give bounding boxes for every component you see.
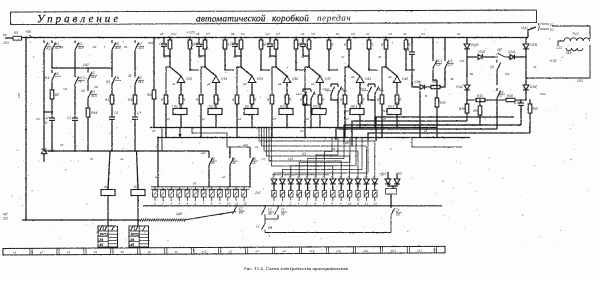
svg-text:V342: V342 — [530, 85, 538, 89]
relay coil К4.1 — [350, 104, 364, 114]
contact X8.5/78 — [75, 74, 79, 87]
svg-text:а9: а9 — [345, 141, 349, 145]
junction — [368, 37, 370, 39]
junction — [208, 186, 210, 188]
junction — [165, 137, 167, 139]
wire routing 3 — [336, 129, 497, 140]
fuse box FU — [386, 189, 397, 195]
contact K9/45 — [250, 155, 254, 168]
junction — [295, 37, 297, 39]
junction — [215, 127, 217, 129]
svg-text:48: 48 — [81, 89, 85, 93]
svg-text:45: 45 — [130, 243, 134, 247]
wire bundle 14b — [140, 219, 186, 222]
wire — [440, 71, 445, 87]
wire — [359, 115, 361, 128]
junction — [251, 127, 253, 129]
wire — [134, 122, 136, 151]
wire — [514, 56, 526, 58]
wire — [331, 97, 338, 100]
capacitor C12 — [49, 115, 55, 123]
junction — [295, 69, 297, 71]
wire — [111, 122, 113, 151]
wire — [251, 83, 253, 96]
wire rail y137 — [157, 137, 470, 139]
junction — [308, 37, 310, 39]
svg-text:42: 42 — [341, 55, 345, 59]
svg-text:R3: R3 — [14, 31, 18, 35]
svg-text:К7: К7 — [134, 185, 138, 189]
transistor V35 base diagonal — [241, 67, 252, 76]
junction — [169, 66, 171, 68]
resistor R38 — [431, 85, 440, 88]
svg-text:V35: V35 — [257, 77, 263, 81]
svg-text:45: 45 — [252, 161, 256, 165]
svg-text:ФУ5: ФУ5 — [396, 172, 402, 176]
wire — [323, 184, 325, 191]
svg-text:а10: а10 — [243, 143, 248, 147]
resistor stage V48 bias — [380, 95, 384, 104]
svg-text:Управление: Управление — [37, 13, 121, 25]
wire — [189, 38, 191, 41]
junction — [385, 66, 387, 68]
wire top supply bus — [44, 37, 528, 39]
diode V29 — [41, 149, 46, 154]
junction — [436, 136, 438, 138]
svg-text:К4.4: К4.4 — [382, 109, 388, 113]
junction — [224, 37, 226, 39]
contact G4/45 — [230, 155, 234, 168]
title text — [37, 12, 351, 25]
junction — [51, 111, 52, 112]
wire transformer left — [558, 41, 564, 46]
contact K7/314 — [135, 40, 139, 53]
wire — [412, 60, 419, 87]
junction — [51, 150, 53, 152]
wire bias branch — [305, 67, 309, 95]
diode VD33 — [372, 179, 378, 184]
junction — [157, 186, 159, 188]
svg-text:к9: к9 — [121, 250, 124, 254]
svg-text:4Б: 4Б — [377, 87, 381, 91]
wire — [357, 184, 359, 191]
relay coil К2.0 — [279, 104, 293, 114]
junction — [224, 69, 226, 71]
wire — [520, 108, 522, 125]
junction — [302, 37, 304, 39]
junction — [87, 150, 89, 152]
svg-text:64: 64 — [470, 72, 474, 76]
junction — [368, 69, 370, 71]
wire bias branch — [272, 67, 276, 95]
resistor stage V34 bias — [199, 95, 203, 104]
svg-text:11: 11 — [235, 202, 238, 206]
diode junction V33 — [177, 76, 185, 83]
svg-text:ЕВ: ЕВ — [268, 226, 272, 230]
svg-text:к1: к1 — [13, 251, 16, 255]
resistor R2 — [50, 90, 54, 99]
contact K1.5/17 — [497, 88, 501, 101]
junction — [419, 136, 421, 138]
svg-text:413: 413 — [91, 94, 97, 98]
junction — [310, 127, 312, 129]
diode VD28 — [330, 179, 336, 184]
junction — [520, 99, 521, 100]
resistor stage V48 right — [404, 40, 408, 49]
title box — [10, 10, 536, 25]
junction — [111, 67, 113, 69]
resistor R17 — [110, 95, 114, 104]
junction — [405, 37, 407, 39]
wire — [411, 57, 413, 60]
resistor R59 — [478, 106, 482, 115]
junction — [277, 205, 278, 206]
wire — [87, 117, 89, 151]
wire — [396, 174, 398, 179]
wire — [393, 184, 397, 186]
wire — [368, 49, 370, 70]
svg-text:V48: V48 — [402, 77, 408, 81]
wire — [290, 184, 292, 191]
contact K6/414 — [52, 70, 56, 83]
contact K3/413c — [88, 88, 92, 101]
wire — [466, 90, 468, 104]
wire — [485, 99, 497, 101]
wire — [349, 184, 351, 191]
svg-text:R15: R15 — [477, 94, 483, 98]
svg-text:2/1: 2/1 — [335, 249, 341, 253]
capacitor C V37 — [300, 41, 306, 49]
junction — [134, 150, 136, 152]
junction — [381, 137, 383, 139]
junction — [163, 37, 165, 39]
svg-text:24: 24 — [98, 238, 103, 242]
contact K1.1 — [433, 58, 437, 71]
transistor V33 base diagonal — [170, 67, 181, 76]
contact D3/416 — [135, 74, 139, 87]
wire — [163, 38, 165, 43]
diode array terminal boxes — [272, 191, 377, 206]
svg-text:С2: С2 — [36, 117, 40, 121]
junction — [328, 69, 330, 71]
wire — [260, 38, 262, 41]
svg-text:12: 12 — [365, 202, 369, 206]
wire collector link — [190, 69, 199, 71]
diode FU5 — [394, 179, 400, 184]
wire — [180, 83, 182, 96]
svg-text:111: 111 — [3, 217, 8, 221]
svg-text:д7: д7 — [90, 157, 94, 161]
wire — [515, 99, 526, 101]
wire — [381, 104, 383, 138]
wire — [348, 38, 350, 41]
resistor stage V37 left — [307, 40, 311, 49]
wire routing 2 — [344, 125, 487, 143]
svg-text:в7: в7 — [60, 143, 64, 147]
wire — [215, 104, 217, 109]
wire — [315, 184, 317, 191]
svg-text:45: 45 — [99, 243, 103, 247]
contact K1.6b — [445, 58, 449, 71]
diode VD26 — [313, 179, 319, 184]
wire — [359, 104, 361, 109]
wire bottom rail — [22, 219, 140, 221]
svg-text:к4: к4 — [238, 117, 241, 121]
wire — [189, 49, 191, 70]
diode V341 — [464, 85, 470, 90]
junction — [204, 66, 206, 68]
resistor stage V37 out — [318, 95, 322, 104]
wire — [368, 38, 370, 41]
wire — [368, 97, 375, 100]
resistor stage V37 bias — [303, 95, 307, 104]
wire — [328, 38, 330, 41]
scan specks — [12, 29, 589, 250]
junction — [169, 55, 171, 57]
svg-text:2Л1: 2Л1 — [254, 191, 261, 195]
wire — [387, 172, 389, 179]
svg-text:5.9: 5.9 — [448, 63, 453, 67]
wire — [87, 68, 89, 70]
wire — [137, 196, 139, 227]
resistor stage V34 right — [223, 40, 227, 49]
wire — [479, 115, 481, 125]
svg-text:с7: с7 — [262, 157, 266, 161]
wire — [467, 56, 477, 58]
wire — [134, 53, 136, 74]
wire — [107, 196, 109, 227]
svg-text:а4: а4 — [278, 82, 282, 86]
svg-text:к1.0: к1.0 — [296, 92, 302, 96]
svg-text:С6: С6 — [460, 59, 464, 63]
svg-text:414: 414 — [115, 46, 121, 50]
wire — [344, 104, 346, 138]
svg-text:10/12: 10/12 — [99, 233, 108, 237]
capacitor C4 — [409, 49, 415, 57]
junction — [286, 127, 288, 129]
svg-text:С8: С8 — [311, 32, 315, 36]
wire — [74, 53, 76, 74]
diode VD25 — [305, 179, 311, 184]
svg-text:6: 6 — [195, 202, 197, 206]
wire collector link — [225, 69, 234, 71]
svg-text:45: 45 — [211, 161, 215, 165]
svg-text:R44: R44 — [91, 111, 97, 115]
svg-text:С64: С64 — [540, 92, 546, 96]
junction — [496, 99, 498, 101]
junction — [344, 137, 346, 139]
wire — [224, 38, 226, 41]
resistor stage V33 right — [188, 40, 192, 49]
junction — [189, 69, 191, 71]
resistor stage V37 right — [327, 40, 331, 49]
junction — [529, 99, 530, 100]
junction — [111, 150, 113, 152]
contact K1.0 — [303, 89, 307, 102]
wire — [303, 88, 311, 90]
wire — [520, 100, 522, 101]
resistor stage V35 bias — [235, 95, 239, 104]
wire — [340, 184, 342, 191]
junction — [275, 66, 277, 68]
diode VD32 — [364, 179, 370, 184]
svg-text:2: 2 — [161, 202, 164, 206]
svg-text:V36: V36 — [292, 77, 298, 81]
terminal arrows B1 B2 — [538, 23, 549, 31]
wire — [303, 102, 311, 105]
arrow output — [178, 128, 181, 139]
relay coil К3.1 — [312, 104, 326, 114]
relay coil К2.3 — [244, 104, 258, 114]
diode V241 — [523, 44, 529, 49]
svg-text:62: 62 — [60, 45, 64, 49]
svg-text:а6: а6 — [351, 75, 355, 79]
junction — [234, 37, 236, 39]
wire — [303, 49, 309, 56]
wire — [319, 104, 321, 109]
wire — [74, 123, 76, 151]
capacitor C V36 — [267, 41, 273, 49]
svg-text:С1: С1 — [67, 116, 71, 120]
svg-text:47: 47 — [268, 55, 272, 59]
svg-text:7: 7 — [203, 202, 205, 206]
contact K3.4 — [338, 84, 342, 97]
wire — [111, 53, 113, 74]
svg-text:(54: (54 — [505, 72, 510, 76]
resistor R40 — [528, 104, 532, 113]
svg-text:С4: С4 — [388, 32, 392, 36]
svg-text:2: 2 — [280, 202, 283, 206]
svg-text:R17: R17 — [105, 98, 111, 102]
svg-text:41: 41 — [163, 55, 167, 59]
svg-text:R39: R39 — [459, 107, 465, 111]
junction — [153, 37, 155, 39]
junction — [432, 37, 434, 39]
svg-text:д7: д7 — [366, 32, 370, 36]
svg-text:а1: а1 — [172, 82, 176, 86]
junction — [328, 37, 330, 39]
wire — [204, 38, 206, 41]
wire — [51, 99, 53, 115]
svg-text:а11: а11 — [201, 151, 206, 155]
wire — [424, 86, 431, 88]
resistor stage V41 out — [358, 95, 362, 104]
wire node y151 — [44, 150, 209, 152]
junction — [43, 111, 44, 112]
contact C6 — [497, 60, 501, 73]
wire — [390, 194, 392, 208]
wire rising link — [184, 212, 236, 221]
svg-text:V243: V243 — [508, 50, 516, 54]
svg-text:д2: д2 — [300, 129, 304, 133]
wire node 150 — [52, 67, 112, 69]
junction — [236, 137, 238, 139]
diode array feed routing left — [258, 127, 375, 179]
wire to transformer — [552, 26, 590, 39]
wire — [169, 49, 171, 67]
wire — [224, 49, 226, 70]
wire — [249, 147, 251, 155]
wire collector link — [261, 69, 270, 71]
junction — [240, 66, 242, 68]
wire — [319, 83, 321, 96]
junction — [107, 219, 109, 221]
resistor stage V35 left — [239, 40, 243, 49]
diode V342 — [523, 85, 529, 90]
svg-text:4: 4 — [178, 202, 180, 206]
svg-text:к8: к8 — [383, 117, 386, 121]
contact Gx/C8 — [391, 208, 395, 233]
wire bias branch — [237, 67, 241, 95]
svg-text:С6: С6 — [241, 32, 245, 36]
resistor stage V33 left — [168, 40, 172, 49]
svg-text:к3: к3 — [202, 117, 205, 121]
svg-text:К4.2: К4.2 — [345, 109, 351, 113]
junction — [204, 55, 206, 57]
wire — [271, 104, 273, 138]
svg-text:413: 413 — [47, 47, 53, 51]
wire — [436, 80, 438, 98]
svg-text:к7: к7 — [346, 117, 349, 121]
wire — [208, 151, 210, 155]
wire routing 5 — [360, 124, 521, 126]
svg-text:TV2: TV2 — [572, 32, 579, 36]
junction — [229, 186, 231, 188]
contact B7/E8 — [233, 206, 237, 214]
svg-text:49: 49 — [301, 55, 305, 59]
svg-text:С1: С1 — [298, 42, 302, 46]
wire — [264, 206, 266, 207]
junction — [153, 126, 155, 128]
wire — [153, 99, 155, 127]
diode VD21 — [271, 179, 277, 184]
relay coil К2.2 — [208, 104, 222, 114]
bottom connector ruler — [3, 246, 445, 255]
wire — [359, 83, 361, 96]
svg-text:с112: с112 — [521, 26, 528, 30]
svg-text:С4: С4 — [114, 111, 118, 115]
wire — [137, 151, 139, 189]
junction — [200, 137, 202, 139]
svg-text:5.9: 5.9 — [436, 63, 441, 67]
wire — [466, 57, 468, 85]
wire — [286, 104, 288, 109]
transistor V41 base diagonal — [349, 67, 360, 76]
junction — [269, 37, 271, 39]
resistor stage V33 bias — [164, 95, 168, 104]
wire — [411, 38, 413, 51]
wire — [204, 49, 206, 67]
svg-text:314: 314 — [138, 46, 144, 50]
wire anode bar above array — [272, 174, 330, 176]
wire — [374, 184, 376, 191]
svg-text:д4: д4 — [403, 32, 407, 36]
svg-text:к7: к7 — [40, 250, 43, 254]
wire — [111, 87, 113, 95]
svg-text:(2): (2) — [302, 152, 306, 156]
svg-text:кб: кб — [256, 249, 260, 253]
wire node y112 — [44, 111, 52, 113]
contact K4.2 — [368, 84, 372, 97]
resistor stage V41 bias — [343, 95, 347, 104]
svg-text:С1: С1 — [159, 42, 163, 46]
transistor V37 base diagonal — [309, 67, 320, 76]
svg-text:Е8: Е8 — [239, 211, 243, 215]
svg-text:д6: д6 — [301, 32, 305, 36]
svg-text:9: 9 — [219, 202, 221, 206]
svg-text:а7: а7 — [193, 182, 197, 186]
svg-text:коробкой: коробкой — [272, 13, 309, 24]
